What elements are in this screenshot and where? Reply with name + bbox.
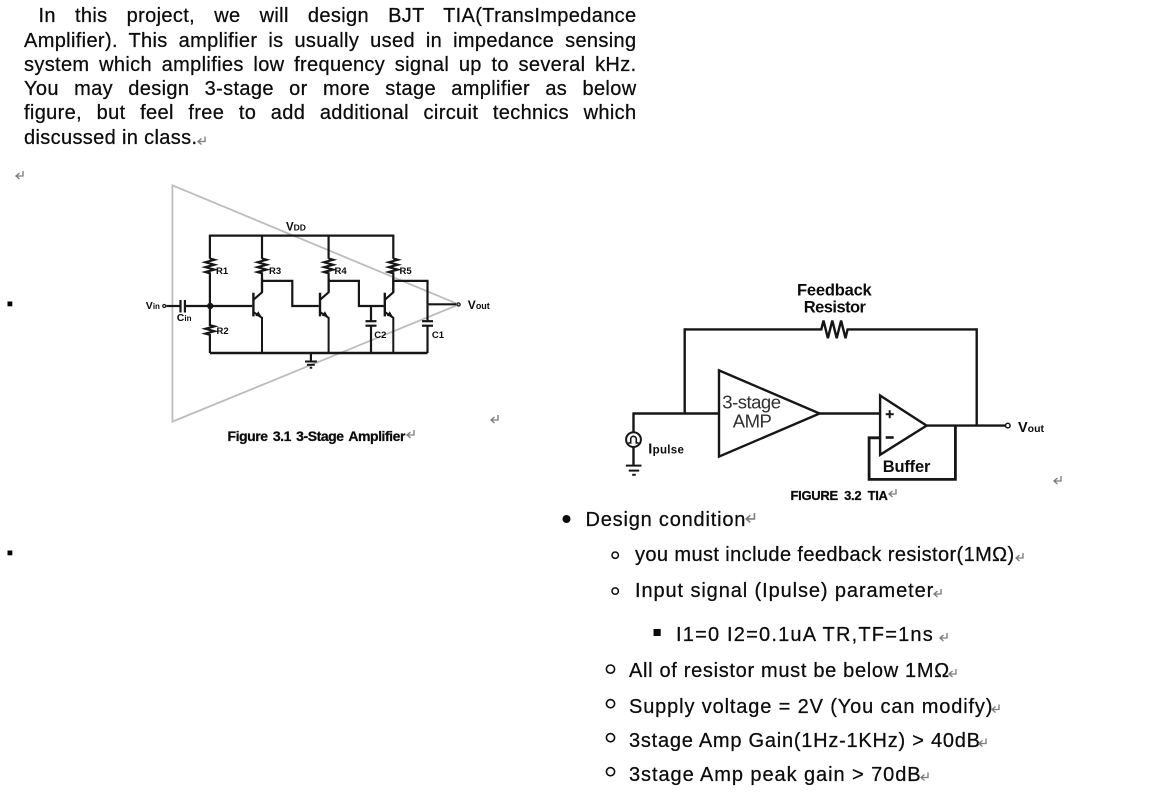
transistor Q3 — [385, 278, 394, 353]
wire R4 branch from VDD — [328, 235, 330, 259]
resistor R5 — [389, 259, 398, 292]
return marks — [16, 137, 1061, 781]
wire base Q1 — [210, 305, 252, 307]
bullet list — [586, 510, 747, 530]
output coupling wire — [393, 281, 427, 304]
schematic labels — [146, 222, 490, 341]
buffer - pin — [886, 436, 894, 439]
caption figure 3.1 — [228, 428, 405, 444]
current source Ipulse — [626, 413, 641, 465]
resistor R4 — [324, 259, 333, 292]
resistor R3 — [258, 259, 267, 292]
Vin terminal — [163, 305, 166, 308]
capacitor C1 — [422, 304, 433, 353]
feedback left wire — [684, 328, 686, 413]
op-amp 3-stage AMP — [719, 370, 820, 456]
output wire — [927, 424, 1006, 426]
resistor R1 — [205, 259, 214, 306]
paragraph text — [24, 4, 637, 149]
wire R1 branch from VDD — [209, 235, 211, 259]
ground rail — [210, 352, 428, 354]
TIA feedback top wire with resistor — [685, 321, 977, 339]
VDD rail — [210, 235, 393, 237]
Vout terminal (TIA) — [1006, 423, 1011, 428]
ground (Ipulse) — [626, 466, 642, 475]
wire R3 branch from VDD — [261, 235, 263, 259]
coupling wire stage2-stage3 — [329, 281, 384, 306]
black square markers left margin — [8, 302, 13, 307]
transistor Q1 — [253, 278, 262, 353]
transistor Q2 — [320, 278, 329, 353]
buffer + pin — [886, 410, 894, 418]
resistor R2 — [205, 306, 214, 353]
node input junction — [207, 303, 213, 309]
caption figure 3.2 — [791, 488, 888, 503]
buffer feedback loop — [869, 426, 955, 480]
capacitor C2 — [366, 306, 377, 353]
capacitor Cin — [166, 300, 210, 313]
amplifier triangle outline (gray) — [172, 185, 459, 421]
Vout wire — [428, 303, 457, 305]
wire R5 branch from VDD — [392, 235, 394, 259]
wire amp to buffer — [820, 412, 881, 414]
feedback right wire — [976, 328, 978, 425]
coupling wire stage1-stage2 — [262, 281, 319, 306]
ground symbol — [305, 353, 317, 368]
input wire — [633, 412, 719, 414]
Vout terminal — [457, 303, 460, 306]
op-amp buffer — [880, 396, 927, 455]
